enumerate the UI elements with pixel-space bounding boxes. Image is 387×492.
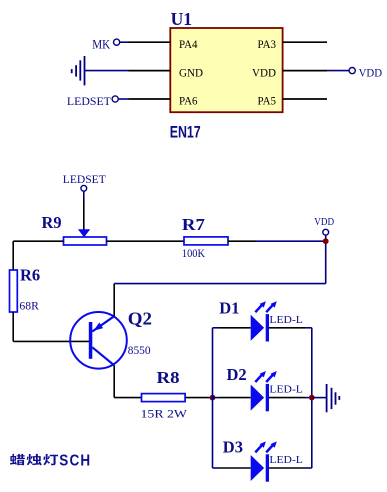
node rail right junction (309, 395, 315, 401)
svg-text:100K: 100K (182, 248, 206, 260)
svg-text:PA6: PA6 (179, 94, 198, 108)
wire R8 to LED rail (185, 397, 212, 399)
svg-text:PA3: PA3 (258, 37, 277, 51)
pin PA6 (129, 94, 198, 108)
label R8 (157, 368, 180, 387)
svg-text:R9: R9 (42, 213, 62, 232)
svg-text:R7: R7 (182, 215, 205, 234)
wire D3 anode (213, 467, 251, 469)
label EN17 (170, 122, 201, 141)
node rail left junction (210, 395, 216, 401)
label D2 (227, 365, 247, 384)
pin PA5 (258, 94, 328, 108)
port LEDSET (top) (67, 94, 118, 108)
wire D2 cathode (269, 397, 312, 399)
port LEDSET (bottom) (63, 174, 106, 191)
wire LEDSET to PA6 (118, 98, 128, 100)
wire D1 anode (213, 327, 251, 329)
label R6 (20, 266, 40, 285)
svg-text:Q2: Q2 (128, 308, 152, 328)
LED D2 (251, 371, 277, 411)
label LED-L D2 (269, 384, 303, 396)
wire to ground (312, 397, 327, 399)
wire D3 cathode (269, 467, 312, 469)
ground (right) (327, 384, 340, 412)
resistor R7 (184, 237, 228, 245)
wire LEDSET to wiper (83, 191, 85, 229)
pin VDD (252, 65, 327, 79)
port VDD (bottom) (314, 217, 334, 239)
transistor Q2 (70, 312, 127, 369)
label 15R 2W (141, 407, 188, 421)
svg-text:EN17: EN17 (170, 122, 201, 141)
svg-text:D2: D2 (227, 365, 247, 384)
label 68R (19, 299, 39, 313)
LED D3 (251, 441, 277, 481)
svg-text:VDD: VDD (314, 217, 334, 228)
label LED-L D3 (269, 454, 303, 466)
LED D1 (251, 301, 277, 341)
wire R9 left / down to R6 (13, 241, 63, 270)
wire MK to PA4 (120, 41, 129, 43)
label LED-L D1 (269, 314, 303, 326)
label D3 (223, 438, 243, 457)
label U1 (171, 9, 193, 29)
label 8550 (128, 345, 151, 357)
svg-text:LEDSET: LEDSET (67, 94, 112, 108)
svg-text:LEDSET: LEDSET (63, 174, 106, 186)
IC U1 (170, 28, 282, 112)
svg-text:VDD: VDD (359, 68, 383, 80)
svg-text:VDD: VDD (252, 65, 276, 79)
port MK (92, 38, 120, 52)
resistor R6 (10, 270, 18, 312)
svg-text:U1: U1 (171, 9, 193, 29)
label Q2 (128, 308, 152, 328)
title 蜡烛灯SCH (10, 454, 58, 465)
wire right rail (311, 328, 313, 468)
svg-text:MK: MK (92, 38, 110, 52)
svg-text:PA5: PA5 (258, 94, 277, 108)
svg-text:8550: 8550 (128, 345, 151, 357)
wire collector down (114, 365, 141, 397)
wire D1 cathode (269, 327, 312, 329)
wire R9 to R7 (107, 240, 185, 242)
svg-text:68R: 68R (19, 299, 39, 313)
svg-text:15R 2W: 15R 2W (141, 407, 188, 421)
svg-text:D3: D3 (223, 438, 243, 457)
label R7 (182, 215, 205, 234)
wire R6 to base (13, 312, 89, 341)
wire R7 to VDD node (228, 240, 326, 242)
port VDD (top right) (349, 68, 382, 80)
ground (left) (72, 56, 85, 85)
svg-text:D1: D1 (219, 298, 239, 317)
wire ground to GND pin (85, 70, 129, 72)
pin PA4 (129, 37, 198, 51)
wire emitter rail to VDD (114, 241, 326, 283)
svg-text:LED-L: LED-L (269, 314, 303, 326)
title SCH letters (59, 452, 90, 469)
svg-text:LED-L: LED-L (269, 384, 303, 396)
pin PA3 (258, 37, 328, 51)
label R9 (42, 213, 62, 232)
svg-text:GND: GND (179, 65, 203, 79)
wire D2 anode (213, 397, 251, 399)
node VDD junction (323, 238, 329, 244)
potentiometer R9 (64, 229, 107, 245)
resistor R8 (142, 394, 186, 402)
svg-text:R8: R8 (157, 368, 180, 387)
svg-text:S C H: S C H (59, 452, 90, 469)
wire emitter up (113, 284, 115, 317)
svg-text:R6: R6 (20, 266, 40, 285)
label D1 (219, 298, 239, 317)
svg-text:PA4: PA4 (179, 37, 198, 51)
label 100K (182, 248, 206, 260)
wire left rail (212, 328, 214, 468)
pin GND (129, 65, 204, 79)
svg-text:LED-L: LED-L (269, 454, 303, 466)
wire VDD pin to port (327, 70, 349, 72)
